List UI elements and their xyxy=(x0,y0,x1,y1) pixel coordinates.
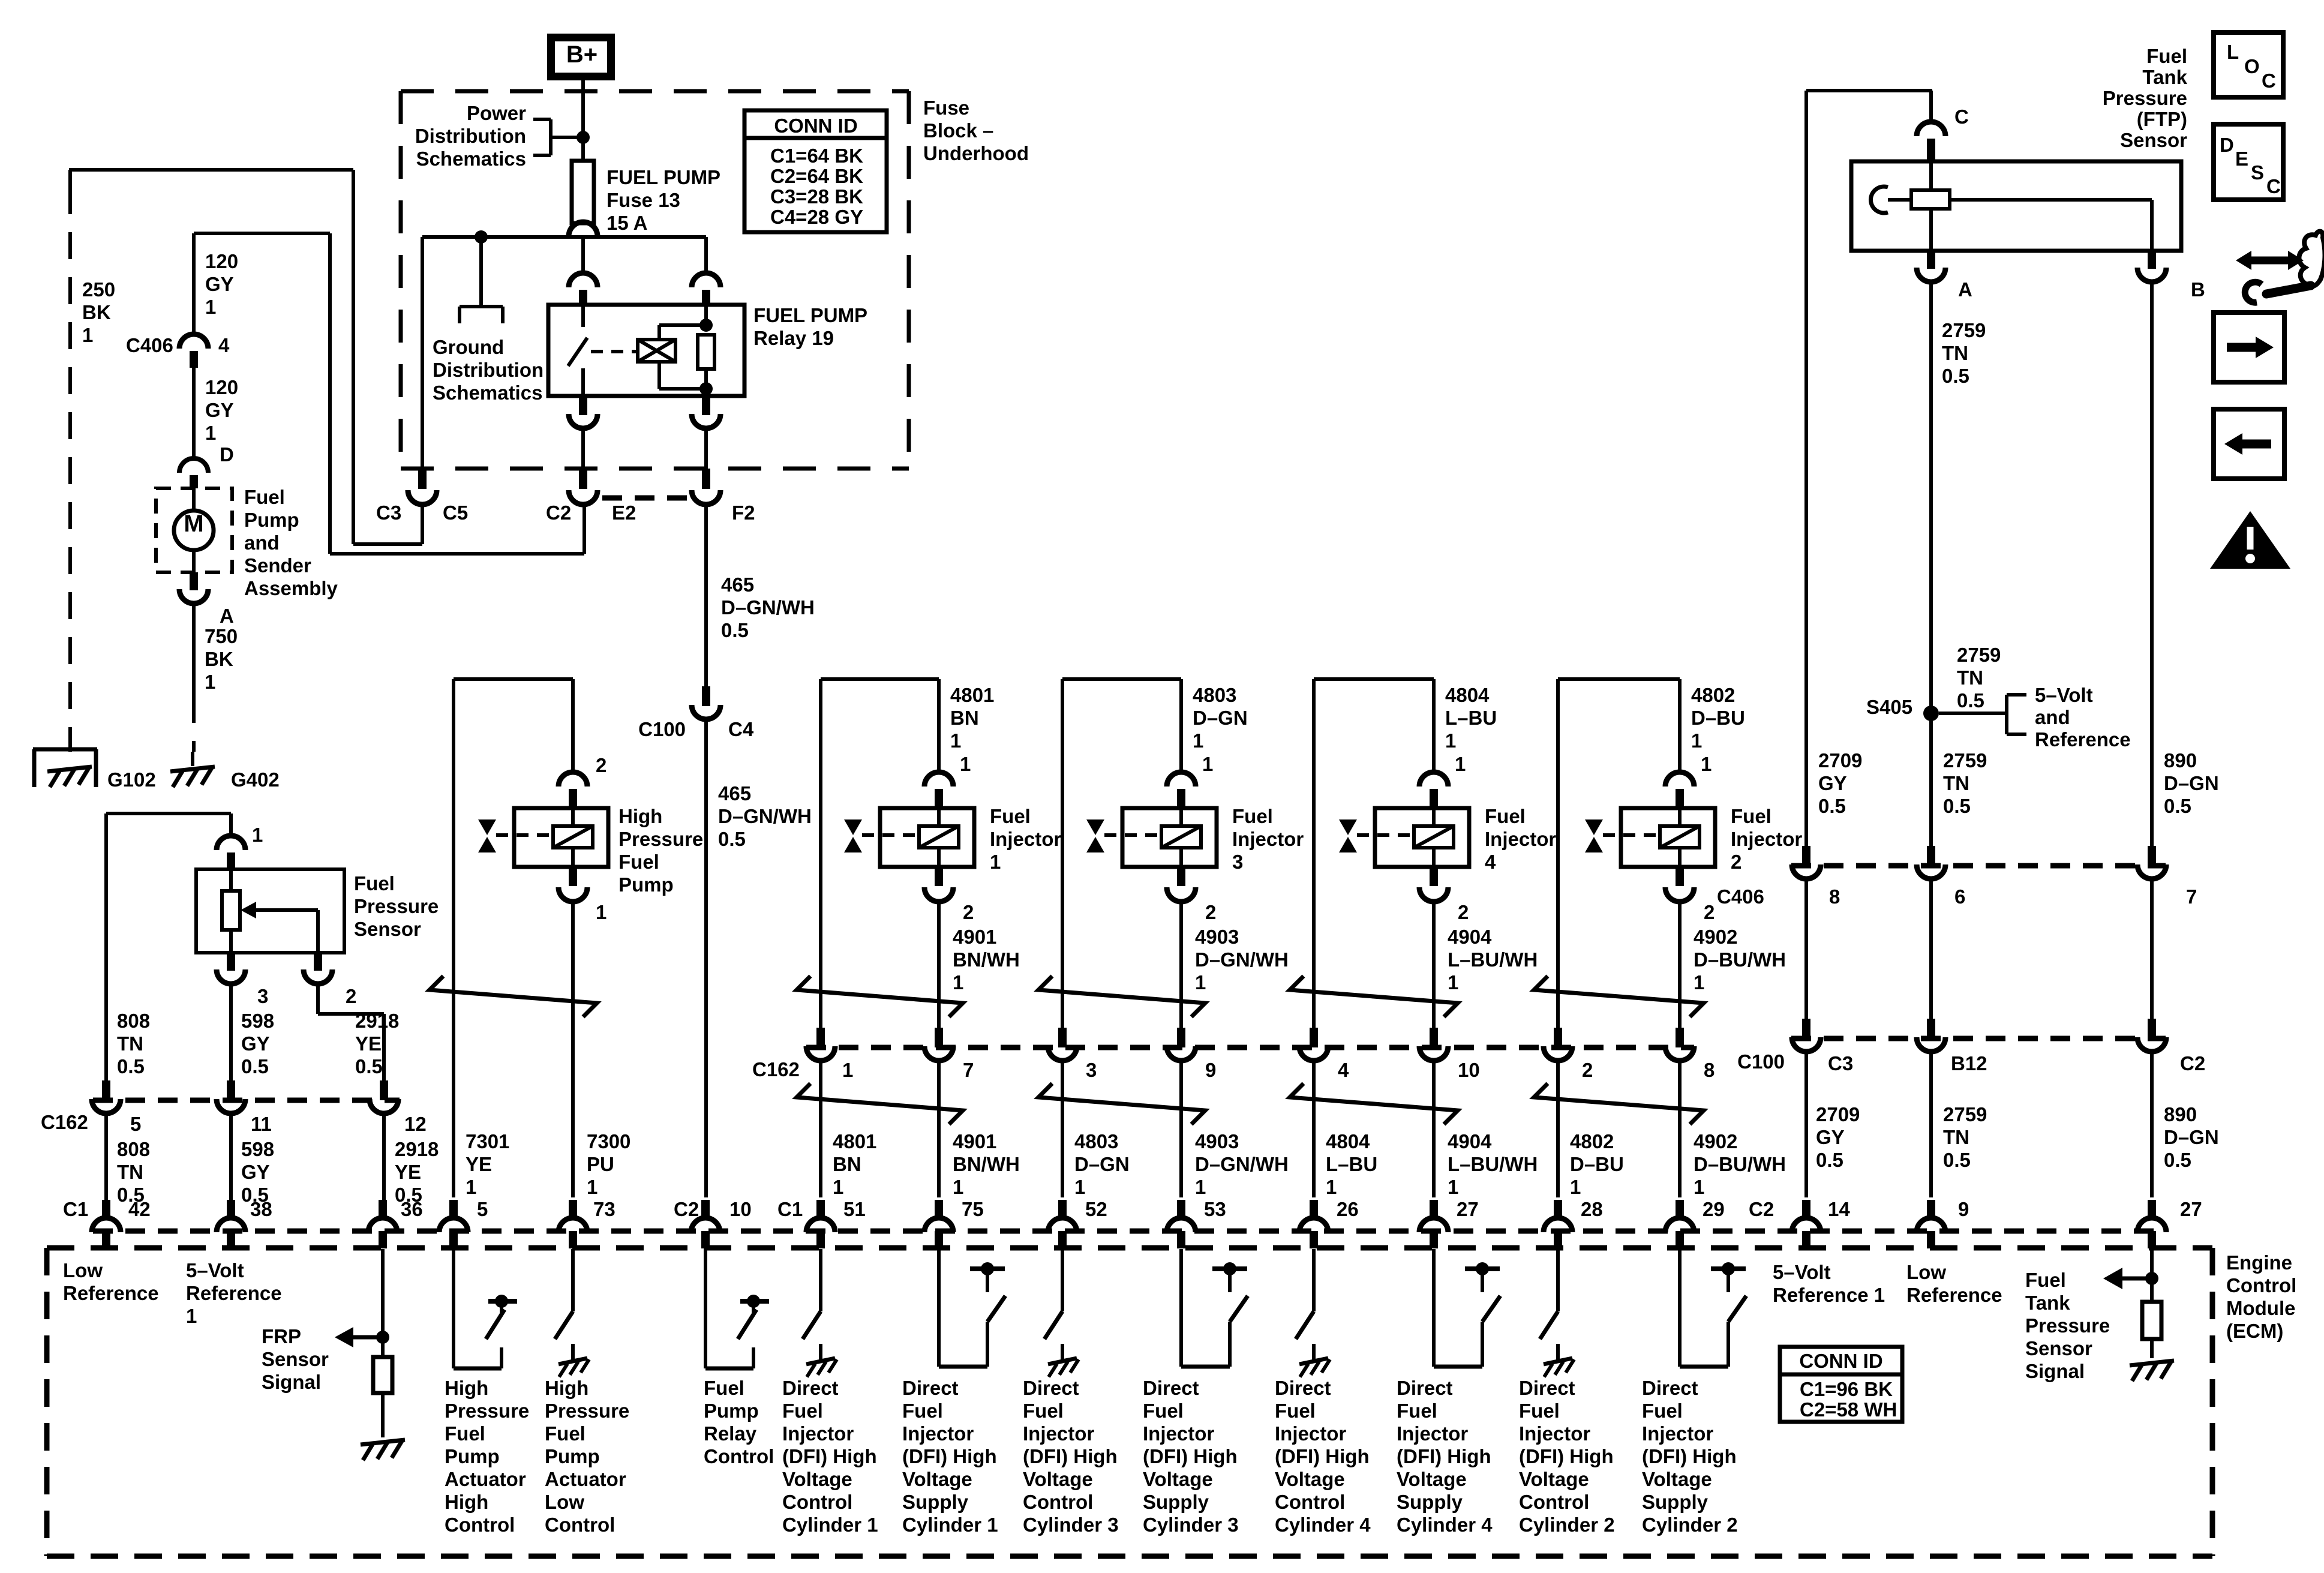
svg-text:D–GN/WH: D–GN/WH xyxy=(721,596,815,619)
svg-text:M: M xyxy=(184,511,203,537)
svg-text:C406: C406 xyxy=(1717,885,1764,908)
svg-text:2: 2 xyxy=(346,985,356,1007)
svg-text:52: 52 xyxy=(1085,1198,1107,1220)
svg-text:Fuel: Fuel xyxy=(1731,805,1771,827)
svg-text:D–BU/WH: D–BU/WH xyxy=(1694,948,1786,971)
svg-text:Direct: Direct xyxy=(1642,1377,1698,1399)
svg-text:C2=58 WH: C2=58 WH xyxy=(1800,1398,1897,1421)
svg-text:FUEL PUMP: FUEL PUMP xyxy=(753,304,867,326)
svg-text:Reference 1: Reference 1 xyxy=(1773,1284,1885,1306)
svg-text:Sensor: Sensor xyxy=(2025,1337,2092,1359)
svg-text:Fuel: Fuel xyxy=(244,486,285,508)
svg-text:2709: 2709 xyxy=(1816,1103,1860,1125)
svg-text:C100: C100 xyxy=(1737,1050,1785,1073)
svg-text:10: 10 xyxy=(1458,1059,1480,1081)
svg-text:Fuel: Fuel xyxy=(618,851,659,873)
svg-text:Fuel: Fuel xyxy=(1397,1400,1437,1422)
svg-text:C1: C1 xyxy=(777,1198,803,1220)
svg-text:Relay: Relay xyxy=(704,1422,757,1445)
svg-text:1: 1 xyxy=(1694,971,1704,993)
svg-text:1: 1 xyxy=(953,1176,963,1198)
svg-text:Injector: Injector xyxy=(1397,1422,1468,1445)
svg-text:Direct: Direct xyxy=(1397,1377,1453,1399)
svg-text:Voltage: Voltage xyxy=(1519,1468,1589,1490)
svg-text:(DFI) High: (DFI) High xyxy=(782,1445,877,1467)
svg-text:1: 1 xyxy=(1326,1176,1337,1198)
svg-text:1: 1 xyxy=(205,296,216,318)
svg-text:High: High xyxy=(445,1491,488,1513)
svg-text:A: A xyxy=(220,605,234,627)
svg-text:Sensor: Sensor xyxy=(262,1348,329,1370)
svg-text:C162: C162 xyxy=(41,1111,88,1133)
svg-text:Injector: Injector xyxy=(1731,828,1802,850)
svg-text:C4: C4 xyxy=(728,718,754,740)
svg-text:Pump: Pump xyxy=(244,509,299,531)
svg-text:Injector: Injector xyxy=(990,828,1061,850)
svg-text:F2: F2 xyxy=(732,502,755,524)
svg-text:1: 1 xyxy=(833,1176,843,1198)
svg-text:B12: B12 xyxy=(1951,1052,1987,1074)
svg-text:G402: G402 xyxy=(231,769,280,791)
svg-text:Fuel: Fuel xyxy=(1143,1400,1184,1422)
svg-text:38: 38 xyxy=(250,1198,272,1220)
svg-text:1: 1 xyxy=(1074,1176,1085,1198)
svg-text:Pressure: Pressure xyxy=(2025,1314,2110,1337)
svg-text:D–GN/WH: D–GN/WH xyxy=(1195,948,1289,971)
svg-text:1: 1 xyxy=(1448,1176,1458,1198)
svg-text:808: 808 xyxy=(117,1138,150,1160)
svg-text:FUEL PUMP: FUEL PUMP xyxy=(606,166,720,188)
svg-text:1: 1 xyxy=(950,730,961,752)
svg-text:1: 1 xyxy=(990,851,1001,873)
svg-text:C100: C100 xyxy=(638,718,686,740)
svg-text:0.5: 0.5 xyxy=(241,1055,269,1077)
svg-text:4902: 4902 xyxy=(1694,1130,1737,1152)
svg-text:BK: BK xyxy=(82,301,111,323)
svg-text:Fuel: Fuel xyxy=(704,1377,744,1399)
svg-text:2: 2 xyxy=(1205,901,1216,923)
svg-text:Injector: Injector xyxy=(902,1422,974,1445)
svg-text:Voltage: Voltage xyxy=(1275,1468,1345,1490)
svg-text:Low: Low xyxy=(63,1259,103,1281)
svg-text:L–BU/WH: L–BU/WH xyxy=(1448,1153,1538,1175)
svg-text:4904: 4904 xyxy=(1448,926,1492,948)
svg-text:73: 73 xyxy=(593,1198,615,1220)
svg-text:Pressure: Pressure xyxy=(2103,87,2187,109)
svg-text:Sensor: Sensor xyxy=(2120,129,2187,151)
svg-text:1: 1 xyxy=(82,324,93,346)
svg-text:D–GN/WH: D–GN/WH xyxy=(718,805,812,827)
svg-text:Cylinder 3: Cylinder 3 xyxy=(1143,1514,1239,1536)
svg-text:High: High xyxy=(618,805,662,827)
svg-text:Fuel: Fuel xyxy=(1023,1400,1064,1422)
svg-text:(DFI) High: (DFI) High xyxy=(1023,1445,1118,1467)
svg-text:D–GN/WH: D–GN/WH xyxy=(1195,1153,1289,1175)
svg-text:Injector: Injector xyxy=(1143,1422,1214,1445)
svg-text:Actuator: Actuator xyxy=(445,1468,526,1490)
svg-text:Injector: Injector xyxy=(1485,828,1556,850)
svg-text:Sender: Sender xyxy=(244,554,311,577)
svg-text:YE: YE xyxy=(395,1161,421,1183)
svg-text:Control: Control xyxy=(1275,1491,1345,1513)
svg-text:10: 10 xyxy=(729,1198,752,1220)
svg-text:4901: 4901 xyxy=(953,926,996,948)
svg-text:598: 598 xyxy=(241,1138,274,1160)
svg-text:TN: TN xyxy=(1942,342,1968,364)
svg-text:Ground: Ground xyxy=(433,336,504,358)
svg-text:Pump: Pump xyxy=(445,1445,500,1467)
svg-text:0.5: 0.5 xyxy=(2164,1149,2191,1171)
svg-text:(ECM): (ECM) xyxy=(2226,1320,2283,1342)
svg-text:2759: 2759 xyxy=(1942,319,1986,341)
svg-text:Cylinder 2: Cylinder 2 xyxy=(1642,1514,1738,1536)
svg-text:7: 7 xyxy=(963,1059,974,1081)
svg-text:750: 750 xyxy=(205,625,238,647)
svg-text:High: High xyxy=(445,1377,488,1399)
svg-text:1: 1 xyxy=(1691,730,1702,752)
svg-text:8: 8 xyxy=(1829,885,1840,908)
svg-text:Tank: Tank xyxy=(2142,66,2187,88)
svg-text:2: 2 xyxy=(596,754,606,776)
svg-text:Control: Control xyxy=(445,1514,515,1536)
svg-text:1: 1 xyxy=(205,422,216,444)
svg-text:51: 51 xyxy=(843,1198,866,1220)
svg-text:Control: Control xyxy=(782,1491,852,1513)
svg-text:1: 1 xyxy=(1195,971,1206,993)
svg-text:Voltage: Voltage xyxy=(782,1468,852,1490)
svg-text:Relay 19: Relay 19 xyxy=(753,327,834,349)
svg-text:L–BU: L–BU xyxy=(1445,707,1497,729)
svg-text:C4=28 GY: C4=28 GY xyxy=(770,206,863,228)
svg-text:2: 2 xyxy=(1582,1059,1593,1081)
svg-text:BN: BN xyxy=(833,1153,861,1175)
svg-text:4903: 4903 xyxy=(1195,1130,1239,1152)
svg-text:Injector: Injector xyxy=(782,1422,854,1445)
svg-text:Supply: Supply xyxy=(1143,1491,1209,1513)
svg-text:C3=28 BK: C3=28 BK xyxy=(770,185,863,208)
svg-text:Cylinder 3: Cylinder 3 xyxy=(1023,1514,1119,1536)
svg-text:29: 29 xyxy=(1703,1198,1725,1220)
svg-text:BN: BN xyxy=(950,707,979,729)
svg-text:9: 9 xyxy=(1205,1059,1216,1081)
svg-text:1: 1 xyxy=(1448,971,1458,993)
svg-text:5–Volt: 5–Volt xyxy=(186,1259,244,1281)
svg-text:Injector: Injector xyxy=(1519,1422,1590,1445)
svg-text:465: 465 xyxy=(718,782,751,804)
svg-text:0.5: 0.5 xyxy=(721,619,749,641)
svg-text:Tank: Tank xyxy=(2025,1292,2070,1314)
svg-text:C2: C2 xyxy=(2180,1052,2205,1074)
svg-text:1: 1 xyxy=(1193,730,1203,752)
svg-text:4: 4 xyxy=(1338,1059,1349,1081)
svg-text:TN: TN xyxy=(117,1032,143,1055)
svg-text:and: and xyxy=(244,532,280,554)
svg-text:26: 26 xyxy=(1337,1198,1359,1220)
svg-text:Pressure: Pressure xyxy=(445,1400,529,1422)
svg-text:D–BU/WH: D–BU/WH xyxy=(1694,1153,1786,1175)
svg-text:C2=64 BK: C2=64 BK xyxy=(770,165,863,187)
svg-text:0.5: 0.5 xyxy=(2164,795,2191,817)
svg-text:Fuel: Fuel xyxy=(1485,805,1526,827)
svg-text:1: 1 xyxy=(596,901,606,923)
svg-text:Cylinder 2: Cylinder 2 xyxy=(1519,1514,1615,1536)
svg-text:C: C xyxy=(2266,175,2281,197)
svg-text:D–BU: D–BU xyxy=(1570,1153,1624,1175)
svg-text:0.5: 0.5 xyxy=(1818,795,1846,817)
svg-text:4: 4 xyxy=(218,334,230,356)
svg-text:D–GN: D–GN xyxy=(2164,772,2219,794)
svg-text:Signal: Signal xyxy=(2025,1360,2085,1382)
svg-text:Fuel: Fuel xyxy=(1232,805,1273,827)
svg-text:7: 7 xyxy=(2186,885,2197,908)
svg-text:0.5: 0.5 xyxy=(1943,795,1971,817)
svg-text:Fuse: Fuse xyxy=(923,97,969,119)
svg-text:9: 9 xyxy=(1958,1198,1969,1220)
svg-text:36: 36 xyxy=(401,1198,423,1220)
svg-text:5: 5 xyxy=(130,1113,141,1135)
svg-text:TN: TN xyxy=(117,1161,143,1183)
svg-text:Voltage: Voltage xyxy=(1397,1468,1467,1490)
svg-text:1: 1 xyxy=(1694,1176,1704,1198)
svg-text:C1: C1 xyxy=(63,1198,88,1220)
svg-text:B+: B+ xyxy=(566,41,597,68)
svg-text:2: 2 xyxy=(1704,901,1715,923)
svg-text:4901: 4901 xyxy=(953,1130,996,1152)
svg-text:High: High xyxy=(545,1377,588,1399)
svg-text:Power: Power xyxy=(467,102,526,124)
svg-text:Direct: Direct xyxy=(782,1377,839,1399)
svg-text:Reference: Reference xyxy=(63,1282,159,1304)
svg-text:CONN ID: CONN ID xyxy=(1799,1350,1882,1372)
svg-text:Reference: Reference xyxy=(186,1282,282,1304)
svg-text:1: 1 xyxy=(1570,1176,1581,1198)
svg-text:C5: C5 xyxy=(443,502,468,524)
svg-text:Control: Control xyxy=(1023,1491,1093,1513)
svg-text:Reference: Reference xyxy=(2035,728,2131,751)
svg-text:Injector: Injector xyxy=(1232,828,1304,850)
svg-text:GY: GY xyxy=(205,399,234,421)
svg-text:YE: YE xyxy=(466,1153,492,1175)
svg-text:42: 42 xyxy=(128,1198,151,1220)
svg-text:7301: 7301 xyxy=(466,1130,509,1152)
svg-text:C406: C406 xyxy=(126,334,173,356)
svg-text:PU: PU xyxy=(587,1153,614,1175)
svg-text:Injector: Injector xyxy=(1642,1422,1713,1445)
svg-text:1: 1 xyxy=(252,824,263,846)
svg-text:0.5: 0.5 xyxy=(718,828,746,850)
svg-text:4801: 4801 xyxy=(833,1130,876,1152)
svg-text:Module: Module xyxy=(2226,1297,2295,1319)
svg-text:7300: 7300 xyxy=(587,1130,630,1152)
svg-text:890: 890 xyxy=(2164,1103,2197,1125)
svg-text:Fuel: Fuel xyxy=(2025,1269,2066,1291)
svg-text:Pump: Pump xyxy=(704,1400,759,1422)
svg-text:0.5: 0.5 xyxy=(1816,1149,1843,1171)
svg-text:4902: 4902 xyxy=(1694,926,1737,948)
svg-text:Fuel: Fuel xyxy=(354,872,395,894)
svg-text:Pump: Pump xyxy=(618,873,674,896)
svg-text:Pressure: Pressure xyxy=(618,828,703,850)
svg-text:TN: TN xyxy=(1943,772,1969,794)
svg-text:598: 598 xyxy=(241,1010,274,1032)
svg-text:Supply: Supply xyxy=(1397,1491,1463,1513)
svg-text:14: 14 xyxy=(1828,1198,1850,1220)
svg-text:15 A: 15 A xyxy=(606,212,647,234)
svg-text:Control: Control xyxy=(704,1445,774,1467)
svg-text:(DFI) High: (DFI) High xyxy=(1397,1445,1491,1467)
svg-text:C2: C2 xyxy=(546,502,571,524)
svg-text:12: 12 xyxy=(404,1113,427,1135)
svg-text:G102: G102 xyxy=(107,769,156,791)
svg-text:Direct: Direct xyxy=(1023,1377,1079,1399)
svg-text:Signal: Signal xyxy=(262,1371,321,1393)
svg-text:53: 53 xyxy=(1204,1198,1226,1220)
svg-text:BN/WH: BN/WH xyxy=(953,948,1020,971)
svg-text:D–GN: D–GN xyxy=(1074,1153,1130,1175)
svg-text:890: 890 xyxy=(2164,749,2197,772)
svg-text:2918: 2918 xyxy=(355,1010,399,1032)
svg-text:0.5: 0.5 xyxy=(355,1055,383,1077)
svg-text:4903: 4903 xyxy=(1195,926,1239,948)
svg-text:E: E xyxy=(2235,148,2248,170)
svg-text:Schematics: Schematics xyxy=(433,382,542,404)
svg-text:Control: Control xyxy=(1519,1491,1589,1513)
svg-text:BK: BK xyxy=(205,648,233,670)
svg-text:1: 1 xyxy=(953,971,963,993)
svg-text:4803: 4803 xyxy=(1074,1130,1118,1152)
svg-text:808: 808 xyxy=(117,1010,150,1032)
svg-text:Fuel: Fuel xyxy=(2146,45,2187,67)
svg-text:1: 1 xyxy=(960,753,971,775)
svg-text:Engine: Engine xyxy=(2226,1251,2292,1274)
svg-text:Voltage: Voltage xyxy=(902,1468,972,1490)
svg-text:D: D xyxy=(220,443,234,466)
svg-text:Pressure: Pressure xyxy=(354,895,439,917)
svg-text:0.5: 0.5 xyxy=(117,1055,145,1077)
svg-text:D: D xyxy=(2220,134,2234,156)
svg-text:120: 120 xyxy=(205,250,238,272)
svg-text:Assembly: Assembly xyxy=(244,577,338,599)
svg-text:Block –: Block – xyxy=(923,119,993,142)
svg-text:Low: Low xyxy=(1906,1261,1946,1283)
svg-text:2: 2 xyxy=(1458,901,1469,923)
svg-text:GY: GY xyxy=(1816,1126,1845,1148)
svg-text:YE: YE xyxy=(355,1032,382,1055)
svg-text:4804: 4804 xyxy=(1326,1130,1370,1152)
svg-text:Fuel: Fuel xyxy=(990,805,1031,827)
svg-text:C1=64 BK: C1=64 BK xyxy=(770,145,863,167)
svg-text:Direct: Direct xyxy=(902,1377,959,1399)
svg-text:4801: 4801 xyxy=(950,684,994,706)
svg-text:1: 1 xyxy=(1195,1176,1206,1198)
svg-text:TN: TN xyxy=(1957,667,1983,689)
svg-text:4: 4 xyxy=(1485,851,1496,873)
svg-text:Fuel: Fuel xyxy=(545,1422,585,1445)
svg-text:6: 6 xyxy=(1954,885,1965,908)
svg-text:75: 75 xyxy=(962,1198,984,1220)
svg-text:Fuel: Fuel xyxy=(902,1400,943,1422)
svg-text:27: 27 xyxy=(2180,1198,2202,1220)
svg-text:(DFI) High: (DFI) High xyxy=(902,1445,997,1467)
svg-text:Cylinder 1: Cylinder 1 xyxy=(902,1514,998,1536)
svg-text:D–BU: D–BU xyxy=(1691,707,1745,729)
svg-text:120: 120 xyxy=(205,376,238,398)
svg-text:1: 1 xyxy=(1445,730,1456,752)
svg-text:(DFI) High: (DFI) High xyxy=(1519,1445,1614,1467)
svg-text:C: C xyxy=(2262,70,2276,92)
svg-text:E2: E2 xyxy=(612,502,636,524)
svg-text:3: 3 xyxy=(257,985,268,1007)
svg-text:Pump: Pump xyxy=(545,1445,600,1467)
svg-text:O: O xyxy=(2244,55,2260,77)
svg-text:BN/WH: BN/WH xyxy=(953,1153,1020,1175)
svg-text:CONN ID: CONN ID xyxy=(774,115,857,137)
svg-text:Actuator: Actuator xyxy=(545,1468,626,1490)
svg-text:5: 5 xyxy=(477,1198,488,1220)
svg-text:Control: Control xyxy=(545,1514,615,1536)
svg-text:Control: Control xyxy=(2226,1274,2296,1296)
svg-text:2759: 2759 xyxy=(1957,644,2001,666)
svg-text:Reference: Reference xyxy=(1906,1284,2002,1306)
svg-text:3: 3 xyxy=(1086,1059,1097,1081)
svg-text:(DFI) High: (DFI) High xyxy=(1642,1445,1737,1467)
svg-text:Direct: Direct xyxy=(1519,1377,1575,1399)
svg-text:5–Volt: 5–Volt xyxy=(2035,684,2093,706)
svg-text:B: B xyxy=(2191,278,2205,301)
svg-text:1: 1 xyxy=(587,1176,597,1198)
svg-text:Fuel: Fuel xyxy=(782,1400,823,1422)
svg-text:4803: 4803 xyxy=(1193,684,1236,706)
svg-text:Fuel: Fuel xyxy=(1642,1400,1683,1422)
svg-text:GY: GY xyxy=(241,1032,270,1055)
svg-text:1: 1 xyxy=(186,1305,197,1327)
svg-text:FRP: FRP xyxy=(262,1325,301,1347)
svg-text:2: 2 xyxy=(963,901,974,923)
svg-text:(DFI) High: (DFI) High xyxy=(1143,1445,1238,1467)
svg-text:C162: C162 xyxy=(752,1058,800,1080)
svg-text:1: 1 xyxy=(205,671,215,693)
svg-text:2: 2 xyxy=(1731,851,1742,873)
svg-text:2759: 2759 xyxy=(1943,749,1987,772)
svg-text:8: 8 xyxy=(1704,1059,1715,1081)
svg-text:A: A xyxy=(1958,278,1972,301)
svg-text:C3: C3 xyxy=(1828,1052,1853,1074)
svg-text:Distribution: Distribution xyxy=(433,359,544,381)
svg-text:465: 465 xyxy=(721,574,754,596)
svg-text:1: 1 xyxy=(1455,753,1466,775)
svg-text:(DFI) High: (DFI) High xyxy=(1275,1445,1370,1467)
svg-text:0.5: 0.5 xyxy=(1943,1149,1971,1171)
svg-text:Sensor: Sensor xyxy=(354,918,421,940)
svg-text:Direct: Direct xyxy=(1275,1377,1331,1399)
svg-text:and: and xyxy=(2035,706,2070,728)
svg-text:4904: 4904 xyxy=(1448,1130,1492,1152)
svg-text:Distribution: Distribution xyxy=(415,125,526,147)
svg-text:L–BU: L–BU xyxy=(1326,1153,1377,1175)
svg-text:Fuse 13: Fuse 13 xyxy=(606,189,680,211)
svg-text:GY: GY xyxy=(205,273,234,295)
svg-text:Voltage: Voltage xyxy=(1143,1468,1213,1490)
svg-text:L–BU/WH: L–BU/WH xyxy=(1448,948,1538,971)
svg-text:Underhood: Underhood xyxy=(923,142,1029,164)
svg-text:4802: 4802 xyxy=(1570,1130,1614,1152)
svg-text:11: 11 xyxy=(251,1113,272,1135)
svg-text:Low: Low xyxy=(545,1491,584,1513)
svg-text:C: C xyxy=(1954,106,1969,128)
svg-text:C3: C3 xyxy=(376,502,401,524)
svg-text:2709: 2709 xyxy=(1818,749,1862,772)
svg-text:1: 1 xyxy=(1202,753,1213,775)
